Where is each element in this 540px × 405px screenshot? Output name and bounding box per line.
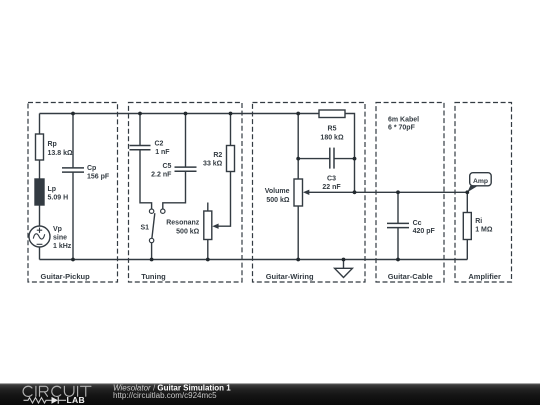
svg-text:Guitar-Wiring: Guitar-Wiring bbox=[266, 272, 314, 281]
svg-text:Vp: Vp bbox=[53, 226, 62, 233]
svg-text:Ri: Ri bbox=[475, 218, 482, 225]
wire R5 right to branch bbox=[345, 114, 355, 193]
svg-text:C2: C2 bbox=[155, 141, 164, 148]
dashed box Tuning bbox=[129, 103, 243, 283]
svg-text:156 pF: 156 pF bbox=[87, 173, 110, 180]
capacitor C3 bbox=[298, 148, 354, 169]
svg-text:1 MΩ: 1 MΩ bbox=[475, 227, 493, 234]
svg-text:5.09 H: 5.09 H bbox=[48, 194, 69, 201]
svg-text:500 kΩ: 500 kΩ bbox=[266, 197, 290, 204]
svg-text:Cc: Cc bbox=[413, 220, 422, 227]
dashed box Guitar-Wiring bbox=[253, 103, 366, 283]
potentiometer Volume wiper arrow bbox=[303, 190, 309, 195]
svg-text:LAB: LAB bbox=[67, 395, 86, 405]
wire Lp to Vp bbox=[39, 205, 41, 226]
svg-text:Rp: Rp bbox=[48, 141, 57, 148]
svg-text:6 * 70pF: 6 * 70pF bbox=[388, 125, 416, 132]
svg-text:Amplifier: Amplifier bbox=[468, 272, 501, 281]
svg-text:6m Kabel: 6m Kabel bbox=[388, 116, 419, 123]
wire pickup left branch upper bbox=[39, 114, 41, 135]
svg-text:13.8 kΩ: 13.8 kΩ bbox=[48, 150, 73, 157]
resistor R2 bbox=[218, 114, 234, 227]
svg-text:R2: R2 bbox=[213, 152, 222, 159]
svg-text:Cp: Cp bbox=[87, 165, 96, 172]
svg-text:sine: sine bbox=[53, 235, 67, 242]
footer bar bbox=[0, 383, 540, 405]
svg-text:C5: C5 bbox=[162, 163, 171, 170]
wire wiring left branch bbox=[297, 114, 299, 180]
svg-text:1 kHz: 1 kHz bbox=[53, 243, 72, 250]
dashed box Guitar-Cable bbox=[376, 103, 444, 283]
resistor R5 bbox=[319, 110, 345, 118]
capacitor C5 bbox=[163, 114, 197, 209]
svg-text:R5: R5 bbox=[328, 126, 337, 133]
wire Vp to bottom bbox=[39, 247, 41, 260]
potentiometer Resonanz bbox=[204, 203, 212, 260]
potentiometer Volume bbox=[294, 179, 303, 260]
potentiometer Resonanz wiper arrow bbox=[212, 224, 218, 229]
svg-text:33 kΩ: 33 kΩ bbox=[203, 161, 223, 168]
net flag Amp bbox=[467, 173, 491, 193]
svg-text:C3: C3 bbox=[327, 175, 336, 182]
svg-text:Amp: Amp bbox=[473, 178, 488, 185]
resistor Rp bbox=[36, 134, 44, 160]
resistor Ri bbox=[463, 213, 471, 240]
svg-text:S1: S1 bbox=[141, 225, 150, 232]
svg-text:Tuning: Tuning bbox=[141, 272, 166, 281]
svg-text:420 pF: 420 pF bbox=[413, 228, 436, 235]
svg-text:22 nF: 22 nF bbox=[322, 184, 341, 191]
dashed box Guitar-Pickup bbox=[28, 103, 118, 283]
capacitor Cc bbox=[387, 192, 409, 259]
inductor Lp bbox=[35, 179, 44, 205]
logo resistor zigzag and diode bbox=[24, 397, 67, 404]
wire top bus bbox=[40, 113, 320, 115]
svg-text:Resonanz: Resonanz bbox=[166, 220, 200, 227]
svg-text:Volume: Volume bbox=[265, 188, 290, 195]
svg-text:180 kΩ: 180 kΩ bbox=[320, 134, 344, 141]
wire bottom bus bbox=[40, 259, 468, 261]
svg-text:2.2 nF: 2.2 nF bbox=[151, 171, 172, 178]
wire Rp to Lp bbox=[39, 160, 41, 179]
svg-text:http://circuitlab.com/c924mc5: http://circuitlab.com/c924mc5 bbox=[113, 391, 217, 400]
svg-text:1 nF: 1 nF bbox=[155, 149, 170, 156]
svg-text:500 kΩ: 500 kΩ bbox=[176, 228, 200, 235]
switch S1 bbox=[149, 209, 165, 260]
svg-text:Guitar-Cable: Guitar-Cable bbox=[388, 272, 433, 281]
wire Amp node to Ri bbox=[466, 192, 468, 212]
capacitor Cp bbox=[62, 114, 84, 260]
svg-text:Guitar-Pickup: Guitar-Pickup bbox=[41, 272, 91, 281]
source Vp plus minus and sine bbox=[33, 228, 44, 245]
capacitor C2 bbox=[130, 114, 152, 209]
dashed box Amplifier bbox=[455, 103, 512, 283]
ground symbol bbox=[335, 260, 353, 278]
source Vp circle bbox=[29, 226, 50, 247]
wire Ri bottom bbox=[466, 240, 468, 260]
svg-text:Lp: Lp bbox=[48, 186, 57, 193]
wire wiper bus to amplifier bbox=[309, 191, 467, 193]
logo CIRCUIT lettering bbox=[23, 386, 91, 396]
